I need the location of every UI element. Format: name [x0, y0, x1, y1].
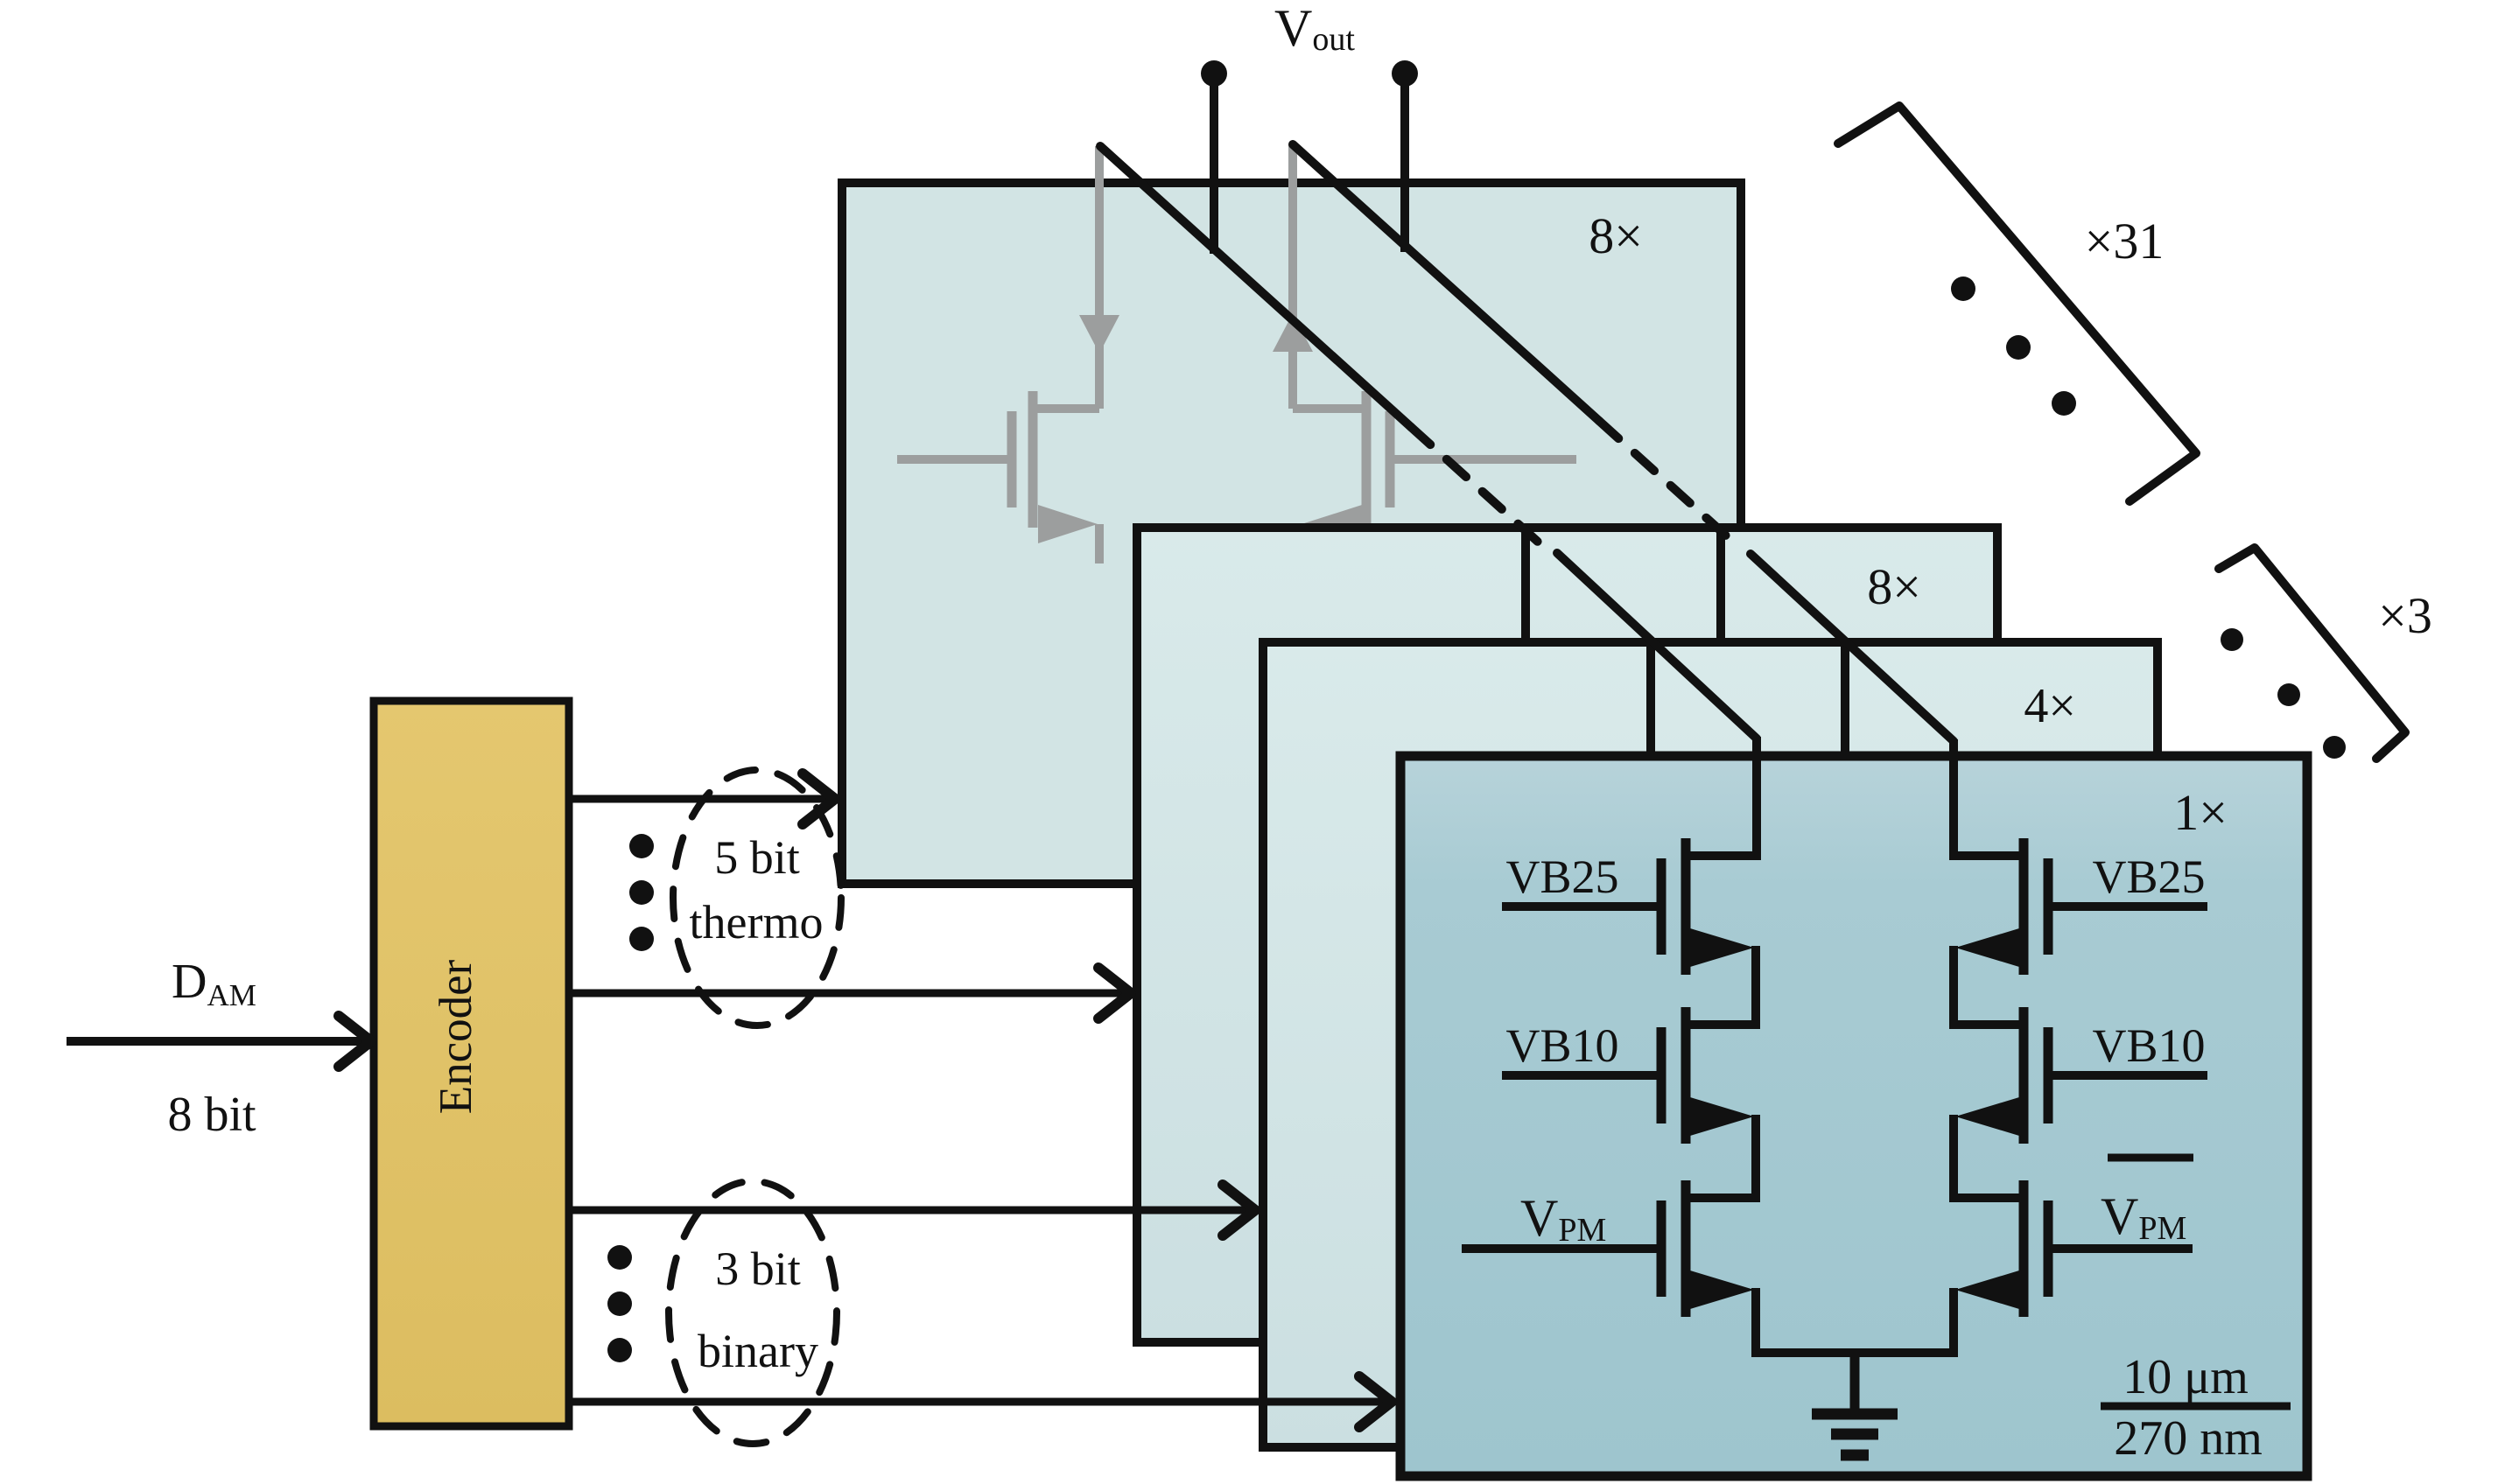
transistor Q5 VB10 (right): [1954, 1007, 2207, 1144]
transistor Q6 VPMbar switch (right): [1954, 1180, 2193, 1317]
svg-text:Encoder: Encoder: [431, 959, 481, 1114]
unit cell box 8x (second): [1137, 528, 1997, 1342]
wire thermo bus line 2 (to box2): [569, 990, 1124, 997]
svg-text:binary: binary: [698, 1325, 818, 1377]
wire stub (chain2 tap on box2): [1716, 526, 1725, 643]
wire Q3 source to tail (left): [1751, 1288, 1760, 1357]
label VPM-bar (right): [2108, 1154, 2193, 1162]
dots thermo bus: [629, 834, 654, 858]
wire thermo bus line 1 (to box1): [569, 795, 828, 803]
wire Q2-Q3 link (left): [1751, 1115, 1760, 1202]
wire Q5-Q6 link (right): [1949, 1115, 1958, 1202]
gray transistor M2 (right branch, box1 cell): [1273, 144, 1576, 563]
transistor Q1 VB25 (left): [1502, 838, 1756, 975]
ground: [1812, 1353, 1898, 1455]
wire tail bus: [1751, 1348, 1958, 1357]
svg-text:5 bit: 5 bit: [714, 831, 800, 884]
svg-text:VB10: VB10: [1505, 1019, 1618, 1072]
dashed ellipse 5 bit thermo: [673, 770, 841, 1025]
transistor Q2 VB10 (left): [1502, 1007, 1756, 1144]
svg-text:4×: 4×: [2024, 679, 2076, 733]
transistor Q3 VPM switch (left): [1462, 1180, 1756, 1317]
unit cell box 4x: [1263, 642, 2158, 1447]
wire DAM input arrow: [67, 1037, 364, 1046]
wire Vout rail left: [1210, 73, 1218, 254]
svg-text:270 nm: 270 nm: [2114, 1411, 2263, 1466]
bracket x3 stack: [2219, 548, 2405, 759]
wire binary bus line 1 (to box3): [569, 1207, 1248, 1214]
svg-text:8 bit: 8 bit: [167, 1088, 256, 1142]
svg-text:VB10: VB10: [2092, 1019, 2205, 1072]
svg-text:3 bit: 3 bit: [715, 1242, 801, 1295]
dots binary bus: [607, 1245, 632, 1270]
svg-text:8×: 8×: [1867, 558, 1921, 615]
wire chain2: box1 right drain to box4 right branch (Vout+ bus): [1293, 144, 1954, 860]
svg-text:8×: 8×: [1589, 207, 1643, 264]
transistor Q4 VB25 (right): [1954, 838, 2207, 975]
unit cell box 8x (rear, x31 stack): [842, 183, 1741, 884]
dots x31: [1951, 276, 1975, 301]
encoder block: [374, 701, 569, 1426]
dots x3: [2221, 628, 2243, 651]
svg-text:thermo: thermo: [690, 896, 824, 948]
svg-text:×3: ×3: [2378, 587, 2432, 644]
svg-text:10 μm: 10 μm: [2123, 1350, 2249, 1404]
svg-text:VB25: VB25: [1505, 850, 1618, 903]
dashed ellipse 3 bit binary: [669, 1181, 837, 1444]
svg-text:1×: 1×: [2173, 784, 2228, 841]
wire stub (chain1 tap on box2): [1521, 526, 1530, 643]
gray transistor M1 (left branch, box1 cell): [897, 146, 1119, 563]
size annotation 10um/270nm: [2101, 1350, 2291, 1466]
svg-text:VB25: VB25: [2092, 850, 2205, 903]
bracket x31 stack: [1838, 106, 2196, 501]
Vout terminal left (node): [1201, 60, 1227, 87]
wire Q4-Q5 link (right): [1949, 946, 1958, 1029]
Vout terminal right (node): [1392, 60, 1418, 87]
wire Q6 source to tail (right): [1949, 1288, 1958, 1357]
wire chain1: box1 left drain to box4 left branch (Vout- bus): [1100, 146, 1757, 860]
wire stub (chain2 tap on box3): [1841, 641, 1849, 758]
wire Vout rail right: [1400, 73, 1409, 252]
unit cell box 1x (front): [1400, 756, 2307, 1476]
wire Q1-Q2 link (left): [1751, 946, 1760, 1029]
svg-text:×31: ×31: [2085, 213, 2165, 269]
wire binary bus line 2 (to box4): [569, 1398, 1385, 1406]
wire stub (chain1 tap on box3): [1646, 641, 1655, 758]
